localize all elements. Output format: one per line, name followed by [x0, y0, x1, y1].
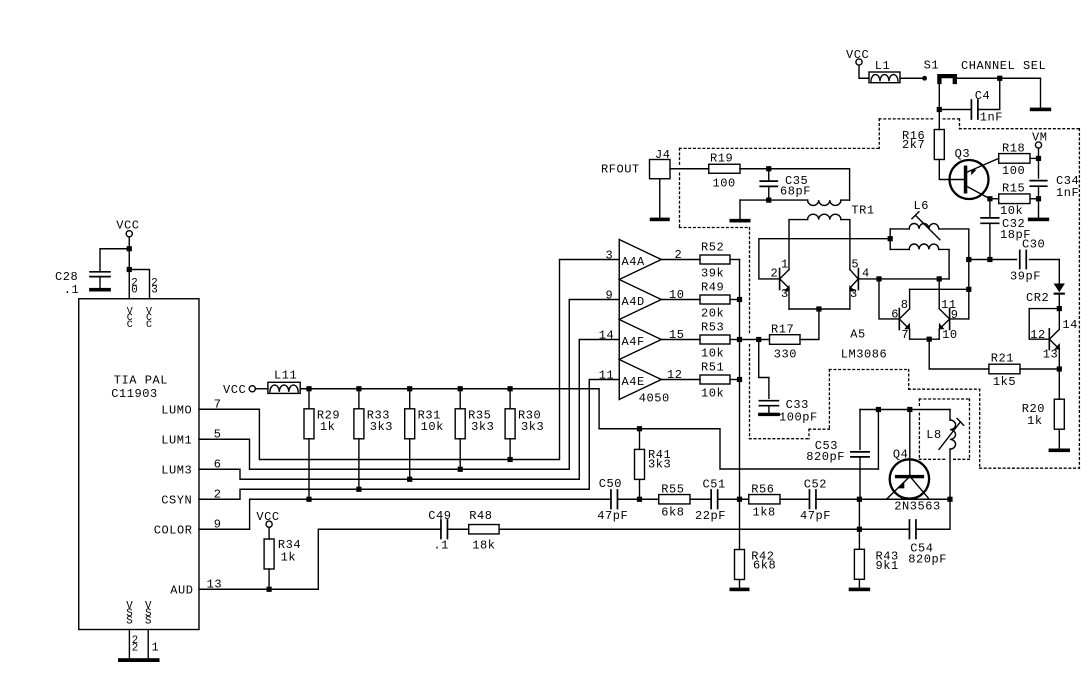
ground (C35) [730, 219, 751, 223]
svg-text:J4: J4 [655, 148, 671, 162]
node S1 contact dot [922, 76, 927, 81]
svg-text:C49: C49 [428, 509, 451, 523]
wire [780, 498, 809, 500]
junction [876, 407, 881, 412]
svg-text:20k: 20k [701, 307, 724, 321]
wire collector 8 line [910, 288, 969, 290]
svg-text:AUD: AUD [170, 584, 193, 598]
svg-text:2: 2 [132, 642, 139, 654]
ground (R42) [730, 588, 750, 592]
junction [1057, 366, 1062, 371]
svg-text:5: 5 [851, 258, 859, 272]
buffer array A4 4050 [618, 240, 620, 400]
svg-text:C28: C28 [55, 270, 78, 284]
wire C28 to ground [99, 277, 101, 288]
junction [766, 166, 771, 171]
svg-text:COLOR: COLOR [154, 524, 193, 538]
resistor R30 3k3 [509, 389, 511, 409]
svg-text:LM3086: LM3086 [841, 348, 888, 362]
svg-text:R51: R51 [701, 361, 724, 375]
svg-text:10k: 10k [701, 387, 724, 401]
wire emitters to R21 [929, 339, 989, 369]
wire C35 ground [739, 200, 741, 219]
wire C53/AUD tie [858, 499, 860, 529]
resistor R43 9k1 [858, 529, 860, 549]
junction [407, 477, 412, 482]
svg-text:0: 0 [131, 285, 138, 297]
svg-text:.1: .1 [64, 283, 80, 297]
inductor L11 [255, 388, 268, 390]
wire S1 down to C4/R16 [938, 82, 940, 130]
svg-text:R21: R21 [991, 352, 1014, 366]
junction [356, 487, 361, 492]
svg-text:820pF: 820pF [806, 450, 845, 464]
svg-text:3: 3 [151, 285, 158, 297]
dashed L8 outline [919, 398, 969, 400]
svg-text:6: 6 [891, 308, 899, 322]
svg-text:11: 11 [599, 368, 615, 382]
junction (R41 top) [637, 426, 642, 431]
junction [737, 297, 742, 302]
svg-text:R53: R53 [701, 321, 724, 335]
wire CSYN pin2 bus [199, 380, 619, 500]
wire AUD to C54 [499, 528, 909, 530]
svg-text:R18: R18 [1002, 142, 1025, 156]
junction (Q3 collector) [987, 196, 992, 201]
resistor R19 100 [670, 168, 709, 170]
svg-text:Q4: Q4 [893, 448, 909, 462]
svg-text:10: 10 [942, 328, 958, 342]
svg-text:820pF: 820pF [908, 552, 947, 566]
junction [857, 527, 862, 532]
svg-text:68pF: 68pF [780, 185, 811, 199]
svg-text:R49: R49 [701, 281, 724, 295]
svg-text:VCC: VCC [223, 383, 246, 397]
svg-text:3: 3 [606, 248, 614, 262]
junction [816, 306, 821, 311]
svg-text:1k5: 1k5 [993, 375, 1016, 389]
capacitor C52 47pF [808, 490, 810, 509]
wire TR1 primary [740, 199, 808, 201]
junction [937, 276, 942, 281]
wire VM down [1038, 148, 1040, 178]
svg-text:L6: L6 [914, 199, 930, 213]
svg-text:6k8: 6k8 [753, 559, 776, 573]
wire emitter rail Q1/Q5 [789, 308, 850, 310]
svg-text:9: 9 [606, 288, 614, 302]
svg-text:A4D: A4D [622, 295, 645, 309]
resistor R55 6k8 [659, 495, 690, 504]
svg-text:L8: L8 [926, 428, 942, 442]
junction [356, 386, 361, 391]
inductor L1 [859, 65, 869, 78]
svg-text:A4E: A4E [622, 375, 645, 389]
svg-text:3k3: 3k3 [471, 420, 494, 434]
svg-text:R15: R15 [1002, 181, 1025, 195]
resistor R31 10k [409, 389, 411, 409]
IC U1 TIA PAL C11903 [79, 299, 199, 630]
svg-text:1nF: 1nF [980, 111, 1003, 125]
capacitor C32 18pF [989, 199, 991, 218]
junction [766, 198, 771, 203]
junction [306, 386, 311, 391]
svg-text:10k: 10k [1000, 204, 1023, 218]
svg-text:2: 2 [771, 267, 779, 281]
capacitor C34 1nF [1030, 180, 1047, 182]
junction [407, 386, 412, 391]
junction [1057, 306, 1062, 311]
junction [458, 386, 463, 391]
svg-text:3k3: 3k3 [521, 420, 544, 434]
resistor R34 1k [268, 527, 270, 539]
wire L1 to S1 [900, 77, 922, 79]
inductor L8 [949, 410, 951, 421]
junction [267, 587, 272, 592]
capacitor C4 1nF [939, 109, 971, 111]
transistor Q12/13/14 (LM3086) [1048, 329, 1050, 350]
resistor R18 100 [999, 154, 1030, 164]
wire AUD pin13 bus [199, 529, 441, 589]
ground (R43) [849, 588, 870, 592]
svg-text:R17: R17 [771, 323, 794, 337]
svg-text:10k: 10k [421, 420, 444, 434]
svg-text:3k3: 3k3 [370, 420, 393, 434]
svg-text:TIA PAL: TIA PAL [114, 374, 168, 388]
resistor R41 3k3 [639, 429, 641, 450]
svg-text:1: 1 [781, 258, 789, 272]
wire base rail Q1 [759, 239, 890, 279]
L6 tuning slug [916, 215, 940, 239]
wire [816, 498, 950, 500]
resistor R49 20k [661, 299, 700, 301]
wire Q4 collector node [860, 409, 950, 411]
junction [947, 497, 952, 502]
wire oscillator node line [969, 259, 1017, 261]
svg-text:LUM1: LUM1 [161, 434, 192, 448]
resistor R29 1k [308, 389, 310, 409]
svg-text:39pF: 39pF [1010, 270, 1041, 284]
wire to C28 [100, 249, 129, 272]
resistor R33 3k3 [358, 389, 360, 409]
svg-text:1k: 1k [1027, 414, 1043, 428]
ground (C34) [1028, 218, 1049, 222]
junction [127, 246, 132, 251]
resistor R52 39k [661, 259, 700, 261]
wire J4 ground [659, 179, 661, 218]
svg-text:10k: 10k [701, 347, 724, 361]
resistor R53 10k [661, 339, 700, 341]
svg-text:47pF: 47pF [597, 509, 628, 523]
capacitor C35 68pF [768, 169, 770, 181]
transistor Q3 [950, 160, 989, 199]
transistor Q1/2/3 (LM3086) [779, 269, 781, 290]
resistor R15 10k [990, 198, 999, 200]
capacitor C51 22pF [710, 490, 712, 509]
resistor R17 330 [740, 339, 770, 341]
junction [756, 337, 761, 342]
junction [508, 386, 513, 391]
wire [618, 498, 659, 500]
transformer TR1 secondary winding [808, 214, 841, 219]
svg-text:100: 100 [713, 177, 736, 191]
wire VCC riser to Q4 node [877, 410, 879, 470]
junction [888, 236, 893, 241]
svg-text:S: S [126, 616, 133, 628]
capacitor C28 .1 [90, 271, 110, 273]
svg-text:LUMO: LUMO [161, 404, 192, 418]
wire R19 to TR1 [740, 169, 850, 200]
svg-text:C11903: C11903 [111, 387, 158, 401]
svg-text:CHANNEL SEL: CHANNEL SEL [961, 59, 1046, 73]
svg-text:18k: 18k [472, 538, 495, 552]
junction [857, 497, 862, 502]
junction [737, 337, 742, 342]
svg-text:9k1: 9k1 [876, 559, 899, 573]
ground (C33) [758, 413, 780, 416]
svg-text:C30: C30 [1022, 238, 1045, 252]
junction [306, 497, 311, 502]
svg-text:C51: C51 [703, 477, 726, 491]
junction (emitters 7/10) [927, 337, 932, 342]
svg-text:CSYN: CSYN [161, 494, 192, 508]
capacitor C49 .1 [440, 520, 442, 539]
resistor R56 1k8 [749, 495, 780, 504]
wire 4050 output rail [739, 260, 741, 550]
svg-text:1nF: 1nF [1056, 186, 1079, 200]
transistor Q5/4/3 (LM3086) [857, 269, 859, 290]
svg-text:330: 330 [774, 348, 797, 362]
svg-text:R19: R19 [710, 152, 733, 166]
svg-text:2k7: 2k7 [902, 138, 925, 152]
svg-text:C: C [127, 320, 134, 331]
junction [127, 267, 132, 272]
L8 tuning slug [939, 422, 960, 450]
resistor R20 1k [1058, 369, 1060, 399]
svg-text:R56: R56 [751, 482, 774, 496]
resistor R16 2k7 [934, 130, 944, 160]
wire [718, 498, 749, 500]
resistor R51 10k [661, 379, 700, 381]
svg-text:TR1: TR1 [851, 204, 874, 218]
ground (R20) [1049, 449, 1070, 453]
ground (J4) [650, 218, 670, 222]
svg-text:CR2: CR2 [1026, 291, 1049, 305]
dashed module outline [680, 147, 880, 149]
junction [1036, 156, 1041, 161]
svg-text:C: C [146, 320, 153, 331]
wire VSS pins [128, 630, 130, 659]
svg-text:R48: R48 [469, 509, 492, 523]
svg-text:LUM3: LUM3 [161, 464, 192, 478]
svg-text:12: 12 [1030, 328, 1046, 342]
transistor Q11/9/10 (LM3086) [949, 309, 951, 330]
svg-text:1k: 1k [320, 420, 336, 434]
capacitor C30 39pF [1019, 251, 1021, 269]
junction [937, 107, 942, 112]
svg-text:14: 14 [599, 328, 615, 342]
diode CR2 [1058, 260, 1060, 284]
svg-text:R52: R52 [701, 241, 724, 255]
svg-text:39k: 39k [701, 267, 724, 281]
resistor R42 6k8 [735, 550, 745, 580]
svg-text:2N3563: 2N3563 [894, 499, 941, 513]
capacitor C50 47pF [610, 490, 612, 509]
svg-text:S1: S1 [924, 59, 940, 73]
svg-text:13: 13 [1043, 348, 1059, 362]
svg-text:22pF: 22pF [695, 509, 726, 523]
svg-text:47pF: 47pF [800, 509, 831, 523]
wire C54 to L8 node [916, 499, 950, 529]
transformer TR1 primary winding [808, 200, 841, 205]
junction [966, 257, 971, 262]
capacitor C54 820pF [908, 520, 910, 539]
svg-text:1: 1 [152, 641, 160, 655]
resistor R35 3k3 [459, 389, 461, 409]
resistor R21 1k5 [989, 364, 1020, 374]
transistor Q4 2N3563 [890, 459, 929, 498]
wire VCC rail [300, 389, 878, 469]
svg-text:Q3: Q3 [955, 147, 971, 161]
wire TR1 secondary leads [789, 220, 808, 270]
svg-text:3k3: 3k3 [648, 458, 671, 472]
junction [737, 497, 742, 502]
svg-text:A4F: A4F [622, 335, 645, 349]
switch S1 [939, 76, 954, 82]
svg-text:100: 100 [1002, 164, 1025, 178]
svg-text:7: 7 [901, 328, 909, 342]
junction [907, 407, 912, 412]
wire base 4 line [858, 278, 949, 280]
capacitor C53 820pF [859, 410, 861, 450]
wire [690, 498, 711, 500]
svg-text:R55: R55 [661, 482, 684, 496]
junction (R41 bottom) [637, 497, 642, 502]
ground (TIA VSS) [118, 658, 160, 662]
svg-text:8: 8 [901, 298, 909, 312]
svg-text:S: S [145, 616, 152, 628]
svg-text:C50: C50 [599, 477, 622, 491]
junction [508, 457, 513, 462]
junction [876, 276, 881, 281]
junction [987, 257, 992, 262]
inductor L6 [890, 228, 909, 230]
ground (C28) [89, 288, 111, 292]
svg-text:1k8: 1k8 [753, 505, 776, 519]
svg-text:14: 14 [1062, 318, 1078, 332]
svg-text:9: 9 [951, 308, 959, 322]
wire LUM1 pin5 bus [199, 300, 619, 470]
svg-text:A5: A5 [850, 328, 866, 342]
capacitor C33 100pF [759, 340, 769, 399]
transistor Q8/6/7 (LM3086) [898, 309, 900, 330]
svg-text:100pF: 100pF [779, 410, 818, 424]
svg-text:1k: 1k [281, 551, 297, 565]
wire [447, 528, 468, 530]
junction [966, 287, 971, 292]
wire S1 to ground [957, 78, 1041, 107]
svg-text:L11: L11 [274, 369, 297, 383]
wire pin23 [129, 270, 149, 299]
connector J4 RFOUT [650, 160, 671, 179]
junction [458, 467, 463, 472]
resistor R48 18k [469, 525, 499, 534]
svg-text:3: 3 [781, 287, 789, 301]
svg-text:RFOUT: RFOUT [601, 163, 640, 177]
svg-text:L1: L1 [875, 59, 891, 73]
svg-text:4050: 4050 [639, 392, 670, 406]
wire LUMO pin7 bus [199, 260, 619, 460]
wire base 6 drop [879, 279, 899, 319]
wire CR2 to base 12 [1029, 309, 1059, 340]
svg-text:6k8: 6k8 [661, 505, 684, 519]
svg-text:C4: C4 [975, 89, 991, 103]
ground (CHANNEL SEL) [1030, 108, 1051, 112]
svg-text:3: 3 [850, 287, 858, 301]
svg-text:A4A: A4A [622, 255, 646, 269]
junction [1036, 196, 1041, 201]
svg-text:.1: .1 [433, 539, 449, 553]
wire VCC to pins 20/23 [128, 237, 130, 299]
wire LUM3 pin6 bus [199, 340, 619, 480]
wire COLOR pin9 bus [199, 499, 611, 529]
junction [997, 76, 1002, 81]
svg-text:C52: C52 [804, 477, 827, 491]
junction [737, 377, 742, 382]
